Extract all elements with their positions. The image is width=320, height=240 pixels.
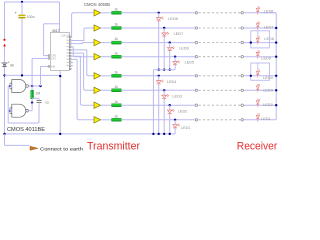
node cap-100u top xyxy=(21,1,23,3)
label R8 1k xyxy=(114,114,118,118)
svg-text:1k: 1k xyxy=(114,85,118,89)
switch S1 xyxy=(3,39,6,47)
svg-text:CMOS 4050B: CMOS 4050B xyxy=(84,2,110,7)
wire feedback loop xyxy=(8,86,39,123)
wire 100u capacitor branch lower xyxy=(21,19,23,76)
label 4017 xyxy=(52,29,60,33)
terminal row7 left xyxy=(195,104,197,106)
svg-text:LED3: LED3 xyxy=(172,95,182,99)
wire buffer1 to resistor R1 xyxy=(101,12,112,14)
wire receiver row3 xyxy=(244,42,277,44)
svg-text:1k: 1k xyxy=(114,51,118,55)
node bus row2 xyxy=(275,27,277,29)
node bus row3 xyxy=(275,41,277,43)
wire cap top link xyxy=(32,97,39,99)
label R1 1k xyxy=(114,7,118,11)
led LED8 transmitter xyxy=(156,13,163,21)
buffer U3H xyxy=(94,117,101,123)
wire clock riser xyxy=(32,58,48,86)
node row5 led tap xyxy=(158,75,160,77)
wire LED6 cathode drop xyxy=(169,51,171,70)
wire LED7 cathode drop xyxy=(163,36,165,69)
svg-text:LED5: LED5 xyxy=(185,60,195,64)
label CMOS 4050B xyxy=(84,2,110,7)
node chip ground battery xyxy=(59,75,61,77)
label CP1 pin xyxy=(51,58,56,61)
wire pin O6 to buffer7 xyxy=(71,56,94,105)
label LED6 tx xyxy=(179,46,189,50)
node row8 led tap xyxy=(174,119,176,121)
wire receiver row6 xyxy=(244,89,277,91)
wire row4 to terminal xyxy=(121,56,195,58)
node collector LED8 xyxy=(158,69,160,71)
node battery rail junction xyxy=(3,74,5,76)
resistor R4 1k xyxy=(112,55,122,58)
terminal row4 right xyxy=(241,56,243,58)
wire LED3 cathode drop xyxy=(163,99,165,134)
wire buffer8 to resistor R8 xyxy=(101,119,112,121)
svg-text:LED4: LED4 xyxy=(167,80,177,84)
wire row1 dashed link xyxy=(199,12,241,14)
terminal row2 right xyxy=(241,27,243,29)
label Receiver xyxy=(237,141,278,153)
label Transmitter xyxy=(87,140,140,152)
wire receiver row5 xyxy=(244,75,277,77)
led LED7 transmitter xyxy=(162,28,169,36)
ic U2 4017 xyxy=(50,33,69,71)
led LED3 transmitter xyxy=(162,90,169,98)
led LED5 transmitter xyxy=(173,57,180,65)
label LED4 rx xyxy=(263,76,273,80)
wire gate2 output loop xyxy=(28,103,33,111)
wire receiver row8 xyxy=(244,119,277,121)
terminal row8 right xyxy=(241,119,243,121)
node gate1out-resistor xyxy=(31,85,33,87)
buffer U3E xyxy=(94,73,101,79)
wire collector drop xyxy=(152,70,154,134)
wire left rail lower xyxy=(4,67,6,134)
node row1 led tap xyxy=(158,12,160,14)
node gate1out-riser xyxy=(39,85,41,87)
wire pin O1 to buffer2 xyxy=(71,28,94,41)
wire 0v bottom rail xyxy=(5,133,176,135)
wire buffer3 to resistor R3 xyxy=(101,42,112,44)
label LED5 rx xyxy=(261,56,271,60)
buffer U3A xyxy=(94,10,101,16)
label R4 1k xyxy=(114,51,118,55)
wire pin O2 to buffer3 xyxy=(71,43,94,44)
wire gate1 output xyxy=(28,85,40,87)
wire LED2 cathode drop xyxy=(169,114,171,134)
wire row1 to terminal xyxy=(121,12,195,14)
wire receiver bus xyxy=(275,13,277,120)
wire 100u capacitor branch upper xyxy=(21,2,23,15)
node rail LED2 xyxy=(169,133,171,135)
svg-text:100u: 100u xyxy=(27,15,35,19)
led LED4 receiver xyxy=(256,69,259,77)
svg-text:LED6: LED6 xyxy=(179,46,189,50)
svg-text:1k: 1k xyxy=(114,70,118,74)
node rail LED3 xyxy=(163,133,165,135)
label LED2 tx xyxy=(178,109,188,113)
svg-text:1M: 1M xyxy=(36,92,41,96)
svg-text:1u: 1u xyxy=(45,101,49,105)
terminal row3 left xyxy=(195,41,197,43)
wire LED5 cathode drop xyxy=(174,65,176,70)
label R2 1k xyxy=(114,23,118,27)
label LED3 tx xyxy=(172,95,182,99)
label CP0 pin xyxy=(51,55,56,58)
led LED6 receiver xyxy=(256,36,259,44)
led LED2 transmitter xyxy=(167,105,174,113)
terminal row3 right xyxy=(241,41,243,43)
led LED1 transmitter xyxy=(173,120,180,128)
label R6 1k xyxy=(114,85,118,89)
ic left pins xyxy=(48,55,50,68)
node rail LED4 xyxy=(158,133,160,135)
terminal row7 right xyxy=(241,104,243,106)
wire earth stub xyxy=(5,134,30,146)
node bus row7 xyxy=(275,104,277,106)
terminal row5 left xyxy=(195,75,197,77)
wire led4 link xyxy=(257,63,259,69)
buffer U3B xyxy=(94,25,101,31)
wire row5 dashed link xyxy=(199,75,241,77)
wire pin O4 to buffer5 xyxy=(71,50,94,76)
node collector LED6 xyxy=(169,69,171,71)
resistor R7 1k xyxy=(112,104,122,107)
resistor R5 1k xyxy=(112,74,122,77)
buffer U3F xyxy=(94,87,101,93)
label LED6 rx xyxy=(264,37,274,41)
earth arrow xyxy=(30,146,38,150)
led LED3 receiver xyxy=(256,84,259,92)
svg-text:LED4: LED4 xyxy=(263,76,273,80)
wire enable riser xyxy=(41,66,48,86)
node box2 row5 xyxy=(250,75,252,77)
resistor R1 1k xyxy=(112,11,122,14)
label INH pin xyxy=(51,65,55,68)
resistor R2 1k xyxy=(112,27,122,30)
wire receiver row1 xyxy=(244,12,277,14)
nand gate U1A 4011 xyxy=(10,80,29,93)
svg-text:1k: 1k xyxy=(114,37,118,41)
svg-text:LED1: LED1 xyxy=(181,126,191,130)
wire bus top corner xyxy=(261,12,276,14)
wire LED4 cathode drop xyxy=(158,84,160,134)
wire reset drop xyxy=(44,24,60,56)
wire receiver row7 xyxy=(244,104,277,106)
label 100u xyxy=(27,15,35,19)
wire chip ground drop xyxy=(59,70,61,133)
wire row2 to terminal xyxy=(121,27,195,29)
svg-text:Receiver: Receiver xyxy=(237,141,278,153)
node row3 led tap xyxy=(169,41,171,43)
terminal row5 right xyxy=(241,75,243,77)
node row4 led tap xyxy=(174,56,176,58)
wire battery horizontal rail xyxy=(5,74,61,76)
svg-text:INH: INH xyxy=(51,65,55,68)
label LED1 rx xyxy=(261,117,271,121)
wire buffer7 to resistor R7 xyxy=(101,104,112,106)
svg-text:CP1: CP1 xyxy=(51,58,56,61)
wire row6 to terminal xyxy=(121,89,195,91)
svg-text:LED7: LED7 xyxy=(264,26,274,30)
wire row4 dashed link xyxy=(199,56,241,58)
terminal row8 left xyxy=(195,119,197,121)
svg-text:LED5: LED5 xyxy=(261,56,271,60)
node gate2 inputs xyxy=(9,110,11,112)
wire row7 to terminal xyxy=(121,104,195,106)
wire LED8 cathode drop xyxy=(158,21,160,70)
wire buffer2 to resistor R2 xyxy=(101,27,112,29)
label Connect to earth xyxy=(40,147,83,152)
box receiver pair upper xyxy=(251,31,270,48)
wire pin O3 to buffer4 xyxy=(71,47,94,57)
terminal row2 left xyxy=(195,27,197,29)
label LED2 rx xyxy=(263,103,273,107)
terminal row1 right xyxy=(241,12,243,14)
led LED8 receiver xyxy=(256,6,259,14)
led LED4 transmitter xyxy=(156,76,163,84)
node gate1 inputs xyxy=(9,85,11,87)
svg-text:LED2: LED2 xyxy=(178,109,188,113)
wire receiver row4 xyxy=(244,56,277,58)
resistor R9 1M vertical xyxy=(31,86,34,103)
buffer U3C xyxy=(94,39,101,45)
wire row3 to terminal xyxy=(121,42,195,44)
node bus row6 xyxy=(275,89,277,91)
svg-text:LED8: LED8 xyxy=(168,17,178,21)
wire buffer6 to resistor R6 xyxy=(101,89,112,91)
node resistor-cap junction xyxy=(31,102,33,104)
wire pin O9 stub xyxy=(71,65,73,67)
label R3 1k xyxy=(114,37,118,41)
led LED7 receiver xyxy=(256,22,259,30)
wire pin O5 to buffer6 xyxy=(71,53,94,90)
terminal row4 left xyxy=(195,56,197,58)
battery B1 9v xyxy=(2,61,10,67)
svg-text:LED2: LED2 xyxy=(263,103,273,107)
node bus row5 xyxy=(275,75,277,77)
label LED4 tx xyxy=(167,80,177,84)
wire left rail middle xyxy=(4,47,6,63)
label LED8 tx xyxy=(168,17,178,21)
label R7 1k xyxy=(114,100,118,104)
led LED1 receiver xyxy=(256,113,259,121)
wire led6 link xyxy=(257,31,259,36)
svg-text:1k: 1k xyxy=(114,7,118,11)
node row2 led tap xyxy=(163,27,165,29)
label LED7 rx xyxy=(264,26,274,30)
svg-text:1k: 1k xyxy=(114,23,118,27)
wire row8 to terminal xyxy=(121,119,195,121)
wire buffer4 to resistor R4 xyxy=(101,56,112,58)
terminal row6 left xyxy=(195,89,197,91)
resistor R3 1k xyxy=(112,41,122,44)
wire row6 dashed link xyxy=(199,89,241,91)
node collector rail xyxy=(152,133,154,135)
wire row5 to terminal xyxy=(121,75,195,77)
label LED5 tx xyxy=(185,60,195,64)
wire pin O8 stub xyxy=(71,62,73,64)
capacitor C1 100u xyxy=(15,11,26,18)
wire gate2 input stub xyxy=(8,110,12,112)
label 1u xyxy=(45,101,49,105)
svg-text:Connect to earth: Connect to earth xyxy=(40,147,83,152)
svg-text:CMOS 4011BE: CMOS 4011BE xyxy=(7,127,45,133)
label LED1 tx xyxy=(181,126,191,130)
node row6 led tap xyxy=(163,89,165,91)
wire buffer5 to resistor R5 xyxy=(101,75,112,77)
buffer U3G xyxy=(94,102,101,108)
svg-text:1k: 1k xyxy=(114,100,118,104)
resistor R6 1k xyxy=(112,89,122,92)
wire receiver row2 xyxy=(244,27,277,29)
capacitor C2 1u xyxy=(37,98,42,104)
label VDD pin xyxy=(61,34,72,37)
wire row7 dashed link xyxy=(199,104,241,106)
label LED8 rx xyxy=(264,9,274,13)
wire LED1 cathode drop xyxy=(174,128,176,134)
svg-text:LED7: LED7 xyxy=(174,32,184,36)
svg-text:Transmitter: Transmitter xyxy=(87,140,140,152)
svg-text:LED1: LED1 xyxy=(261,117,271,121)
node box1 row3 xyxy=(250,41,252,43)
resistor R8 1k xyxy=(112,118,122,121)
wire V+ top rail xyxy=(5,1,60,3)
terminal row6 right xyxy=(241,89,243,91)
node bus row4 xyxy=(275,56,277,58)
label 9v xyxy=(10,64,14,68)
led LED6 transmitter xyxy=(167,43,174,51)
node bottom rail left xyxy=(3,133,5,135)
svg-text:1k: 1k xyxy=(114,114,118,118)
box receiver pair lower xyxy=(251,63,270,80)
led LED5 receiver xyxy=(256,50,259,58)
node row7 led tap xyxy=(169,104,171,106)
wire row3 dashed link xyxy=(199,42,241,44)
wire vdd drop xyxy=(59,2,61,33)
label LED3 rx xyxy=(263,88,273,92)
node cap-100u bottom xyxy=(21,74,23,76)
label LED7 tx xyxy=(174,32,184,36)
ic right pins O0-O9 CO xyxy=(66,36,71,69)
label R5 1k xyxy=(114,70,118,74)
svg-text:4017: 4017 xyxy=(52,29,60,33)
node collector LED7 xyxy=(163,69,165,71)
svg-text:LED3: LED3 xyxy=(263,88,273,92)
label CMOS 4011BE xyxy=(7,127,45,133)
wire pin O0 to buffer1 xyxy=(71,13,94,38)
wire left rail upper xyxy=(4,2,6,39)
wire row2 dashed link xyxy=(199,27,241,29)
node chip ground rail xyxy=(59,133,61,135)
nand gate U1B 4011 xyxy=(10,104,29,117)
label 1M xyxy=(36,92,41,96)
wire pin O7 to buffer8 xyxy=(71,59,94,119)
wire collector line xyxy=(153,69,175,71)
svg-text:9v: 9v xyxy=(10,64,14,68)
terminal row1 left xyxy=(195,12,197,14)
buffer U3D xyxy=(94,54,101,60)
wire row8 dashed link xyxy=(199,119,241,121)
led LED2 receiver xyxy=(256,99,259,107)
